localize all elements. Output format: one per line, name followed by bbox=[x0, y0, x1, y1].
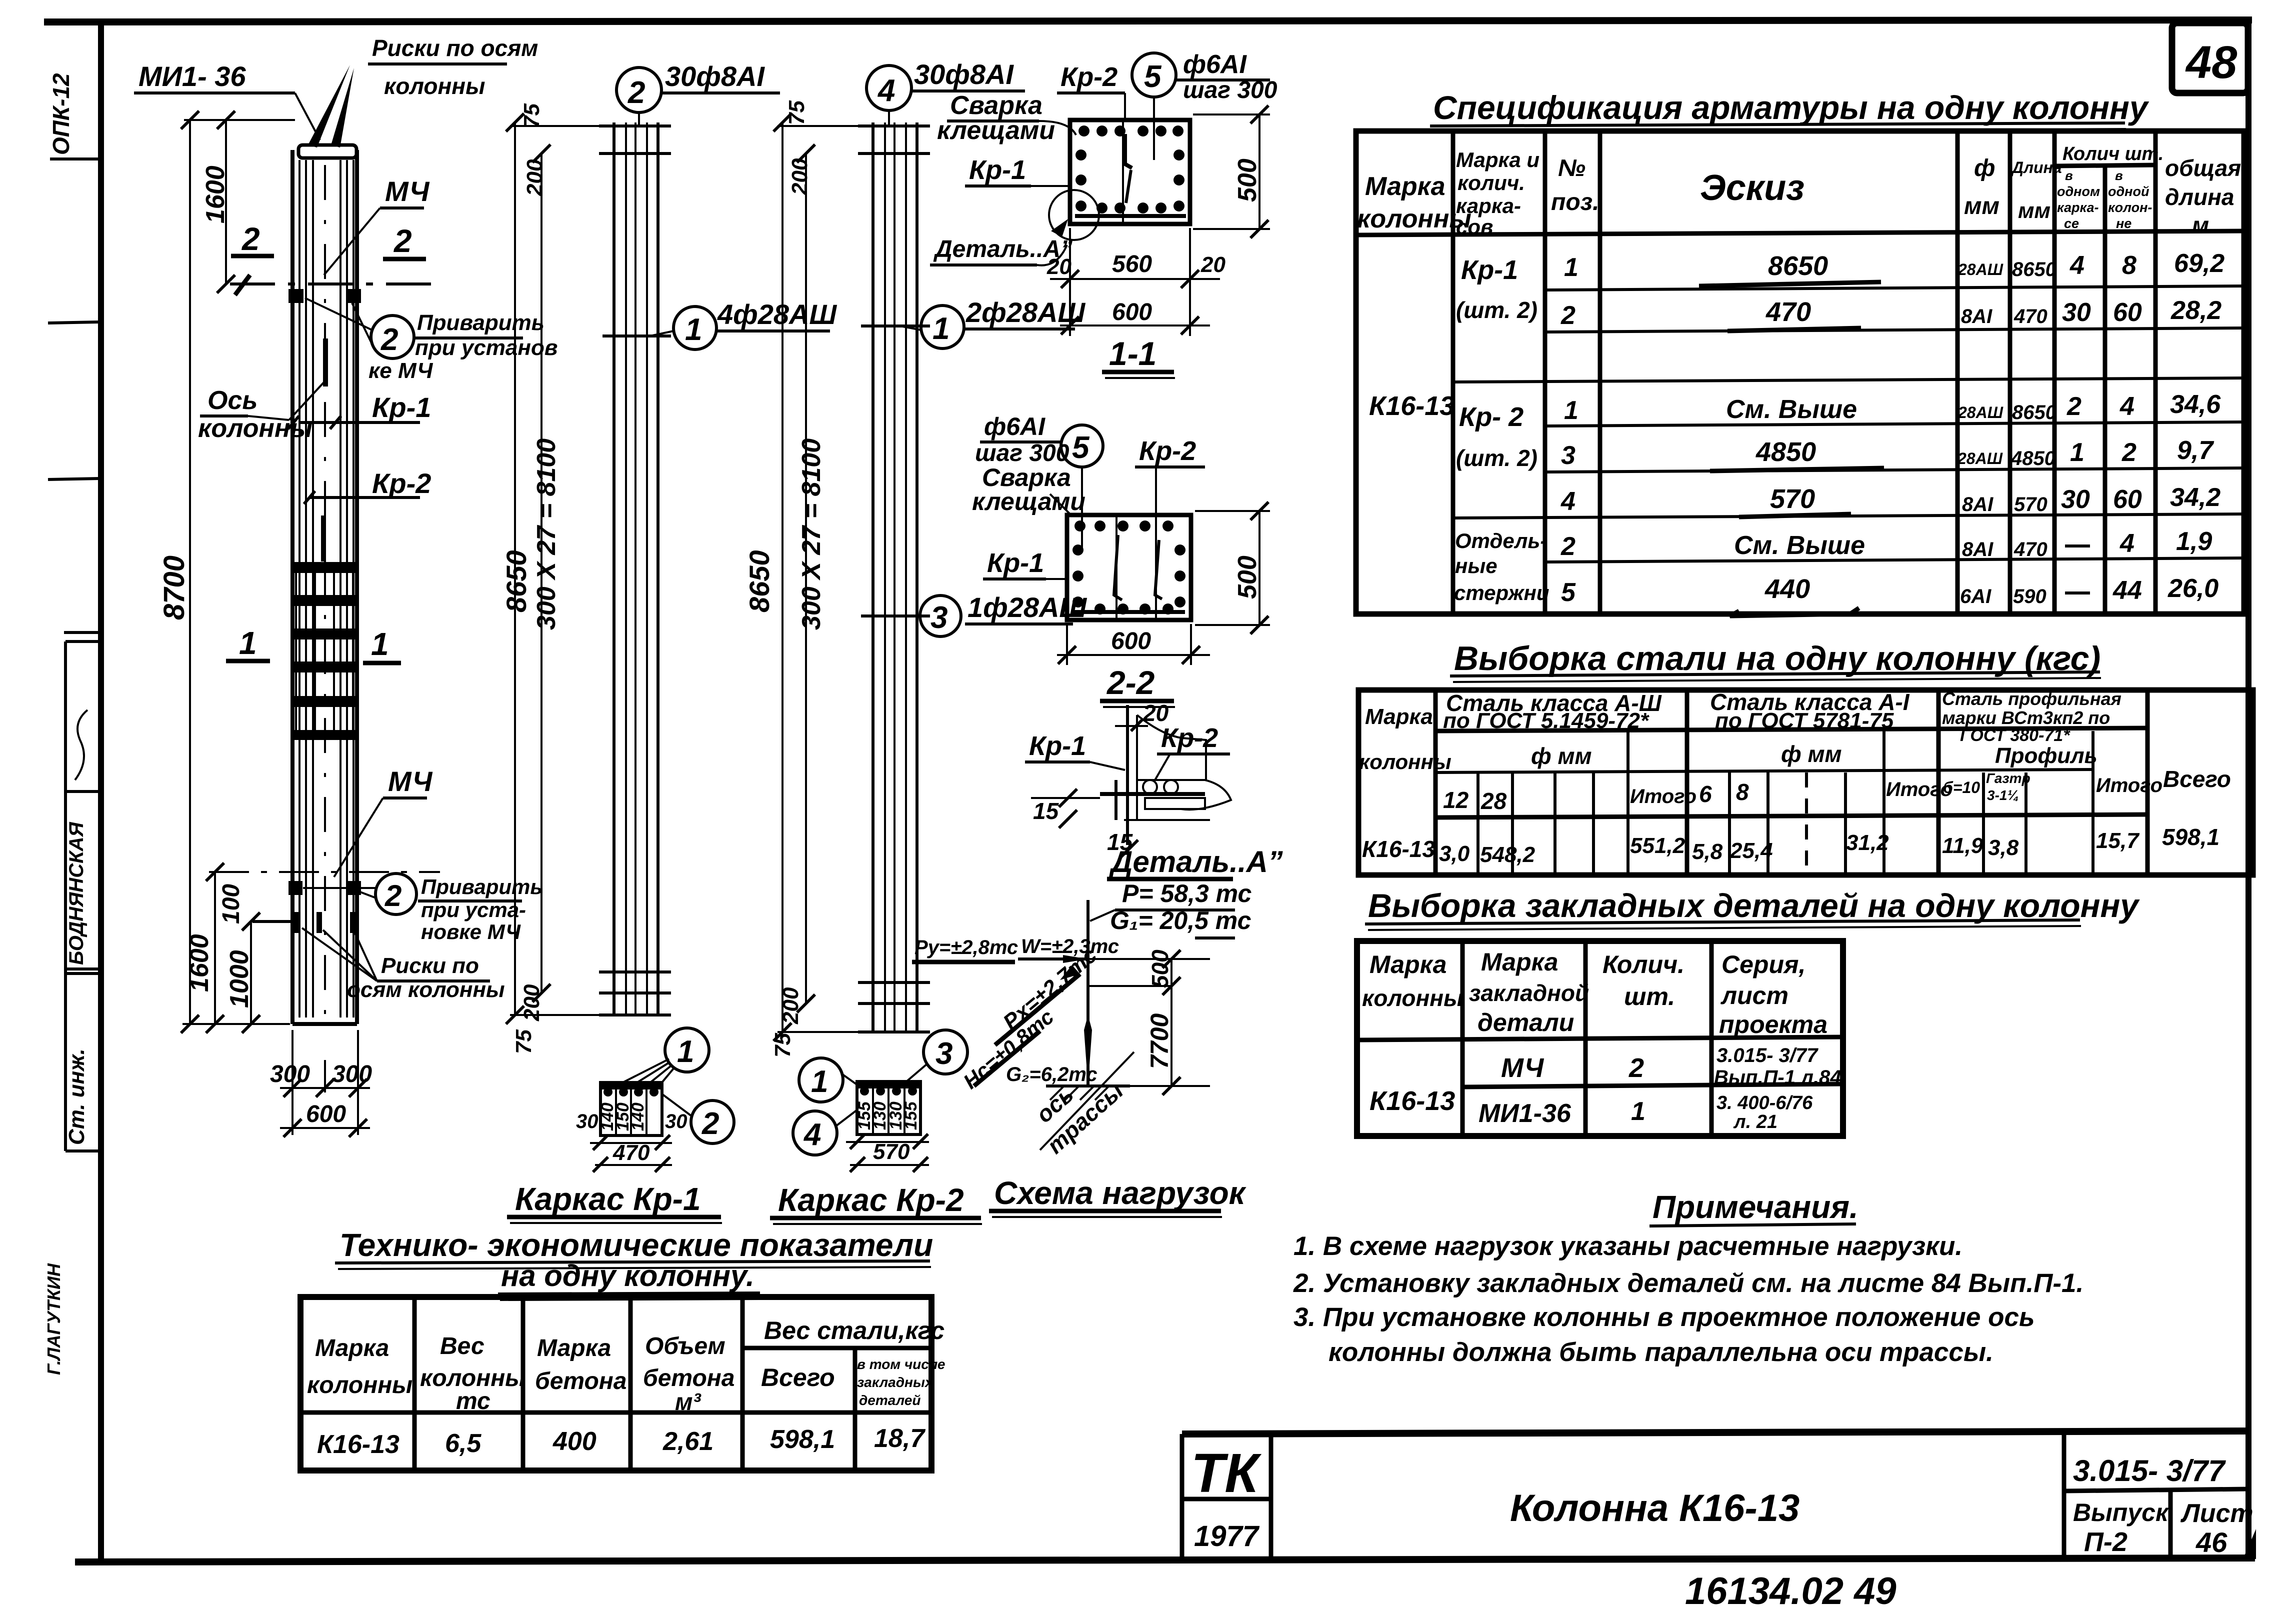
svg-text:мм: мм bbox=[2018, 198, 2050, 223]
section 2-2 dims bbox=[1057, 502, 1270, 707]
svg-text:лист: лист bbox=[1720, 981, 1788, 1009]
cage Kr-1 bars bbox=[599, 122, 671, 1015]
spec table rows body bbox=[1560, 249, 2224, 616]
svg-text:Итого: Итого bbox=[1630, 785, 1696, 807]
svg-text:500: 500 bbox=[1147, 949, 1173, 988]
svg-text:2-2: 2-2 bbox=[1106, 664, 1155, 701]
section cut labels 1-1 bbox=[226, 625, 401, 663]
cage Kr-2 callout 4 top bbox=[866, 58, 1025, 125]
svg-text:300 X 27 = 8100: 300 X 27 = 8100 bbox=[797, 438, 826, 630]
svg-text:30: 30 bbox=[665, 1110, 687, 1132]
svg-text:25,4: 25,4 bbox=[1729, 838, 1773, 863]
TITLE steel table caption bbox=[1450, 639, 2101, 682]
svg-text:7700: 7700 bbox=[1145, 1013, 1173, 1069]
svg-text:Марка: Марка bbox=[1365, 172, 1445, 201]
svg-text:ГОСТ 380-71*: ГОСТ 380-71* bbox=[1960, 726, 2070, 745]
svg-text:8: 8 bbox=[2122, 251, 2136, 280]
dim 1600 top bbox=[201, 111, 235, 293]
svg-text:2,61: 2,61 bbox=[662, 1427, 713, 1456]
svg-text:МЧ: МЧ bbox=[1501, 1053, 1544, 1083]
svg-text:600: 600 bbox=[306, 1101, 346, 1127]
left margin tick 2 bbox=[48, 478, 99, 479]
svg-text:Кр-1: Кр-1 bbox=[372, 391, 431, 423]
cage Kr-2 callout 3 bbox=[900, 591, 1087, 636]
svg-text:Спецификация арматуры на одн: Спецификация арматуры на одну колонну bbox=[1433, 89, 2149, 126]
svg-text:G₁= 20,5 тс: G₁= 20,5 тс bbox=[1110, 906, 1251, 934]
svg-text:4850: 4850 bbox=[1755, 437, 1816, 467]
svg-text:Отдель-: Отдель- bbox=[1455, 529, 1547, 552]
label Karkas Kr-2 bbox=[770, 1182, 982, 1224]
embeds table grid bbox=[1357, 941, 1843, 1136]
svg-text:598,1: 598,1 bbox=[2162, 824, 2219, 850]
svg-text:Py=±2,8тс: Py=±2,8тс bbox=[914, 936, 1018, 958]
svg-text:2: 2 bbox=[380, 322, 398, 357]
svg-text:34,2: 34,2 bbox=[2170, 483, 2220, 512]
svg-text:Кр-2: Кр-2 bbox=[1060, 62, 1117, 92]
svg-text:сов: сов bbox=[1456, 215, 1493, 238]
svg-text:Серия,: Серия, bbox=[1721, 950, 1805, 978]
cage Kr-2 bars bbox=[858, 122, 930, 1032]
svg-text:МИ1- 36: МИ1- 36 bbox=[138, 60, 246, 92]
svg-text:30ф8АI: 30ф8АI bbox=[914, 58, 1014, 90]
page number box 48 bbox=[2172, 23, 2248, 93]
svg-text:W=±2,3тс: W=±2,3тс bbox=[1021, 935, 1119, 957]
svg-text:1600: 1600 bbox=[185, 934, 214, 992]
svg-text:Кр-2: Кр-2 bbox=[1161, 723, 1218, 753]
detail A circle on 1-1 bbox=[930, 190, 1099, 265]
svg-text:на одну колонну.: на одну колонну. bbox=[501, 1259, 754, 1292]
svg-text:2. Установку закладных дета: 2. Установку закладных деталей см. на ли… bbox=[1293, 1268, 2083, 1298]
svg-text:3: 3 bbox=[930, 600, 947, 635]
spec table grid bbox=[1356, 131, 2244, 614]
svg-text:Объем: Объем bbox=[645, 1333, 725, 1359]
svg-text:ф мм: ф мм bbox=[1781, 741, 1842, 767]
svg-text:Всего: Всего bbox=[2163, 766, 2231, 792]
svg-text:Газтр: Газтр bbox=[1986, 770, 2030, 786]
svg-text:Деталь..А”: Деталь..А” bbox=[1108, 845, 1283, 878]
embeds table text bbox=[1362, 948, 1841, 1132]
svg-text:Ось: Ось bbox=[207, 386, 257, 415]
svg-text:600: 600 bbox=[1112, 299, 1152, 325]
svg-text:ные: ные bbox=[1455, 554, 1497, 577]
cage Kr-2 bottom section bbox=[846, 1081, 929, 1172]
svg-text:ф6АI: ф6АI bbox=[984, 412, 1045, 440]
svg-text:колонны: колонны bbox=[1359, 750, 1451, 773]
left stamp boxes bbox=[43, 632, 102, 1375]
left margin tick 1 bbox=[48, 322, 99, 323]
svg-text:ке МЧ: ке МЧ bbox=[368, 358, 433, 383]
svg-text:Марка: Марка bbox=[537, 1335, 611, 1361]
svg-text:200: 200 bbox=[778, 987, 803, 1024]
dims bottom 300 300 600 bbox=[270, 1030, 372, 1137]
svg-text:28АШ: 28АШ bbox=[1957, 449, 2003, 467]
svg-text:6: 6 bbox=[1699, 781, 1712, 807]
svg-text:2: 2 bbox=[241, 221, 260, 257]
label riski bottom bbox=[302, 928, 505, 1002]
svg-text:Длина: Длина bbox=[2010, 158, 2062, 176]
cage Kr-1 bottom callouts bbox=[608, 1028, 734, 1143]
svg-text:3,0: 3,0 bbox=[1439, 841, 1470, 866]
svg-text:Вып.П-1 л.84: Вып.П-1 л.84 bbox=[1714, 1066, 1841, 1088]
svg-text:1: 1 bbox=[932, 311, 949, 346]
svg-text:1000: 1000 bbox=[225, 950, 254, 1008]
svg-text:ТК: ТК bbox=[1191, 1442, 1261, 1504]
svg-text:Кр-1: Кр-1 bbox=[987, 548, 1044, 578]
svg-text:570: 570 bbox=[1770, 484, 1815, 514]
svg-text:2: 2 bbox=[393, 223, 412, 259]
section 2-2 bbox=[1067, 465, 1191, 620]
svg-text:Схема нагрузок: Схема нагрузок bbox=[994, 1175, 1247, 1211]
svg-text:551,2: 551,2 bbox=[1630, 833, 1685, 858]
section 1-1 bbox=[1070, 120, 1190, 224]
svg-text:Марка: Марка bbox=[315, 1335, 389, 1361]
svg-text:шаг 300: шаг 300 bbox=[975, 440, 1069, 466]
svg-text:л. 21: л. 21 bbox=[1733, 1111, 1777, 1132]
svg-text:300: 300 bbox=[332, 1061, 372, 1087]
svg-text:598,1: 598,1 bbox=[770, 1425, 835, 1454]
svg-text:60: 60 bbox=[2113, 298, 2142, 327]
svg-text:4: 4 bbox=[2119, 392, 2134, 421]
load scheme ground bbox=[1031, 1052, 1134, 1158]
svg-text:470: 470 bbox=[1765, 297, 1811, 327]
svg-text:1600: 1600 bbox=[201, 165, 230, 223]
svg-text:б=10: б=10 bbox=[1943, 778, 1980, 796]
svg-text:бетона: бетона bbox=[643, 1365, 734, 1391]
svg-text:бетона: бетона bbox=[535, 1368, 626, 1394]
svg-text:Г.ЛАГУТКИН: Г.ЛАГУТКИН bbox=[43, 1263, 64, 1375]
svg-text:1977: 1977 bbox=[1194, 1520, 1260, 1552]
svg-text:проекта: проекта bbox=[1719, 1010, 1827, 1038]
svg-text:1: 1 bbox=[1564, 396, 1578, 425]
svg-text:2: 2 bbox=[1628, 1053, 1644, 1083]
svg-text:не: не bbox=[2116, 216, 2131, 231]
svg-text:548,2: 548,2 bbox=[1480, 842, 1535, 867]
callout 2 weld bottom bbox=[303, 873, 542, 943]
svg-text:60: 60 bbox=[2113, 485, 2142, 514]
svg-text:Вес: Вес bbox=[440, 1333, 484, 1359]
svg-text:11,9: 11,9 bbox=[1942, 833, 1983, 858]
svg-text:Колич шт.: Колич шт. bbox=[2062, 143, 2163, 164]
svg-text:одной: одной bbox=[2108, 184, 2149, 199]
svg-text:ОПК-12: ОПК-12 bbox=[48, 73, 74, 155]
svg-text:колонны: колонны bbox=[307, 1372, 412, 1398]
svg-text:(шт. 2): (шт. 2) bbox=[1456, 445, 1537, 471]
svg-text:200: 200 bbox=[787, 158, 812, 195]
svg-text:31,2: 31,2 bbox=[1846, 830, 1889, 855]
svg-text:5: 5 bbox=[1072, 430, 1090, 465]
svg-text:6АI: 6АI bbox=[1960, 585, 1991, 607]
svg-text:3.015- 3/77: 3.015- 3/77 bbox=[1716, 1044, 1818, 1066]
svg-text:3: 3 bbox=[1561, 441, 1575, 470]
svg-text:при установ: при установ bbox=[415, 335, 557, 360]
svg-text:шт.: шт. bbox=[1624, 982, 1675, 1010]
svg-text:75: 75 bbox=[770, 1033, 795, 1057]
svg-text:се: се bbox=[2064, 216, 2079, 231]
svg-text:шаг 300: шаг 300 bbox=[1183, 77, 1277, 103]
spec table col1-2 body bbox=[1369, 255, 1549, 604]
svg-text:3. 400-6/76: 3. 400-6/76 bbox=[1716, 1092, 1813, 1113]
svg-text:2ф28АШ: 2ф28АШ bbox=[965, 296, 1085, 328]
svg-text:Марка и: Марка и bbox=[1456, 148, 1539, 171]
label M4 bottom bbox=[334, 765, 433, 877]
svg-text:8650: 8650 bbox=[500, 550, 532, 612]
svg-text:75: 75 bbox=[511, 1029, 536, 1054]
svg-text:2: 2 bbox=[2121, 438, 2136, 467]
svg-text:28: 28 bbox=[1480, 788, 1507, 814]
svg-text:Марка: Марка bbox=[1365, 704, 1433, 729]
svg-text:См. Выше: См. Выше bbox=[1726, 395, 1857, 424]
svg-text:30: 30 bbox=[2061, 485, 2090, 514]
svg-text:8650: 8650 bbox=[743, 550, 775, 612]
cage Kr-2 callout 1 bbox=[900, 296, 1085, 348]
svg-text:1. В схеме нагрузок указаны: 1. В схеме нагрузок указаны расчетные на… bbox=[1293, 1231, 1962, 1261]
svg-text:мм: мм bbox=[1964, 193, 1999, 219]
svg-text:2: 2 bbox=[1560, 532, 1575, 561]
svg-text:П-2: П-2 bbox=[2084, 1527, 2127, 1557]
svg-text:1-1: 1-1 bbox=[1109, 335, 1156, 372]
svg-text:5: 5 bbox=[1561, 578, 1576, 607]
svg-text:Выпуск: Выпуск bbox=[2073, 1498, 2169, 1526]
svg-text:См. Выше: См. Выше bbox=[1734, 531, 1865, 560]
column elevation body bbox=[292, 150, 357, 1024]
svg-text:БОДНЯНСКАЯ: БОДНЯНСКАЯ bbox=[65, 821, 87, 965]
svg-text:марки ВСт3кп2 по: марки ВСт3кп2 по bbox=[1942, 707, 2110, 728]
svg-text:поз.: поз. bbox=[1551, 189, 1599, 215]
svg-text:МЧ: МЧ bbox=[388, 765, 433, 797]
MCh embed squares bottom bbox=[288, 881, 361, 895]
svg-text:440: 440 bbox=[1764, 574, 1810, 604]
svg-text:одном: одном bbox=[2057, 184, 2100, 199]
load scheme diagonal arrows bbox=[959, 943, 1101, 1093]
svg-text:Деталь..А”: Деталь..А” bbox=[933, 236, 1072, 262]
svg-text:9,7: 9,7 bbox=[2177, 436, 2214, 465]
svg-text:4: 4 bbox=[1560, 487, 1575, 516]
svg-text:3. При установке колонны в: 3. При установке колонны в проектное пол… bbox=[1293, 1302, 2034, 1332]
svg-text:К16-13: К16-13 bbox=[1369, 1086, 1455, 1116]
svg-text:Примечания.: Примечания. bbox=[1652, 1189, 1858, 1225]
svg-text:колич.: колич. bbox=[1457, 171, 1525, 194]
svg-text:4850: 4850 bbox=[2010, 447, 2055, 469]
svg-text:200: 200 bbox=[519, 984, 544, 1021]
svg-text:(шт. 2): (шт. 2) bbox=[1456, 297, 1537, 323]
bottom axis mark ticks bbox=[252, 912, 355, 933]
svg-text:600: 600 bbox=[1111, 628, 1151, 654]
svg-text:колонны: колонны bbox=[1357, 204, 1471, 233]
svg-text:300 X 27 = 8100: 300 X 27 = 8100 bbox=[532, 438, 561, 630]
svg-text:590: 590 bbox=[2013, 585, 2046, 607]
section 1-1 dims bbox=[1046, 105, 1270, 378]
svg-text:деталей: деталей bbox=[859, 1392, 920, 1408]
svg-text:Приварить: Приварить bbox=[421, 875, 542, 898]
svg-text:по ГОСТ 5.1459-72*: по ГОСТ 5.1459-72* bbox=[1443, 708, 1649, 733]
svg-text:ф мм: ф мм bbox=[1531, 743, 1592, 769]
detail A drawing bbox=[1025, 700, 1283, 879]
svg-text:ф: ф bbox=[1974, 155, 1995, 181]
svg-text:30: 30 bbox=[576, 1110, 598, 1132]
svg-text:140: 140 bbox=[628, 1102, 647, 1131]
svg-text:Кр-2: Кр-2 bbox=[372, 467, 431, 499]
svg-text:30: 30 bbox=[2062, 298, 2091, 327]
svg-text:Всего: Всего bbox=[761, 1363, 835, 1391]
svg-text:3.015- 3/77: 3.015- 3/77 bbox=[2073, 1454, 2226, 1487]
svg-text:Лист: Лист bbox=[2180, 1499, 2253, 1528]
svg-text:69,2: 69,2 bbox=[2174, 249, 2224, 278]
svg-text:100: 100 bbox=[218, 884, 244, 924]
svg-text:28АШ: 28АШ bbox=[1957, 403, 2003, 421]
section cut line 2-2 bbox=[230, 221, 440, 295]
svg-text:Приварить: Приварить bbox=[417, 310, 544, 335]
svg-text:46: 46 bbox=[2195, 1526, 2227, 1558]
svg-text:20: 20 bbox=[1200, 252, 1225, 277]
svg-text:6,5: 6,5 bbox=[445, 1429, 481, 1458]
label riski top bbox=[368, 35, 538, 99]
svg-text:ф6АI: ф6АI bbox=[1183, 50, 1247, 79]
svg-text:4: 4 bbox=[803, 1117, 821, 1152]
label os kolonny bbox=[198, 380, 326, 443]
svg-text:осям колонны: осям колонны bbox=[347, 977, 505, 1002]
svg-text:12: 12 bbox=[1443, 787, 1469, 813]
section 1-1 leader labels bbox=[937, 50, 1277, 186]
svg-text:1: 1 bbox=[2070, 438, 2084, 467]
tep table grid bbox=[300, 1297, 931, 1470]
svg-text:Кр- 2: Кр- 2 bbox=[1459, 402, 1523, 432]
svg-text:155: 155 bbox=[901, 1101, 920, 1130]
cage Kr-2 bottom callouts bbox=[793, 1030, 967, 1155]
svg-text:8АI: 8АI bbox=[1962, 538, 1993, 560]
svg-text:карка-: карка- bbox=[1456, 194, 1521, 217]
svg-text:общая: общая bbox=[2165, 155, 2241, 181]
label MI1-36 bbox=[134, 60, 320, 140]
svg-text:200: 200 bbox=[522, 159, 547, 196]
svg-text:при уста-: при уста- bbox=[421, 898, 526, 921]
svg-text:клещами: клещами bbox=[937, 116, 1055, 145]
svg-text:2: 2 bbox=[627, 75, 645, 110]
svg-text:Колич.: Колич. bbox=[1602, 950, 1684, 978]
svg-text:2: 2 bbox=[384, 879, 401, 912]
svg-text:28,2: 28,2 bbox=[2170, 296, 2221, 325]
section 2-2 leader labels bbox=[972, 412, 1205, 579]
svg-text:МЧ: МЧ bbox=[385, 175, 430, 207]
svg-text:1: 1 bbox=[1631, 1097, 1645, 1126]
svg-text:8АI: 8АI bbox=[1962, 493, 1993, 515]
svg-text:колонны: колонны bbox=[1362, 985, 1463, 1011]
svg-text:Технико- экономические пок: Технико- экономические показатели bbox=[339, 1227, 933, 1263]
svg-text:по ГОСТ 5781-75: по ГОСТ 5781-75 bbox=[1715, 708, 1894, 733]
svg-text:Марка: Марка bbox=[1481, 948, 1558, 976]
spec table header text bbox=[1357, 143, 2241, 238]
svg-text:Вес стали,кгс: Вес стали,кгс bbox=[764, 1316, 944, 1344]
svg-text:470: 470 bbox=[612, 1140, 650, 1165]
svg-text:тс: тс bbox=[456, 1388, 490, 1414]
svg-text:2: 2 bbox=[1560, 301, 1575, 330]
svg-text:1: 1 bbox=[811, 1064, 828, 1099]
svg-text:колонны должна быть паралл: колонны должна быть параллельна оси трас… bbox=[1328, 1337, 1993, 1367]
svg-text:8: 8 bbox=[1736, 779, 1749, 805]
svg-text:длина: длина bbox=[2165, 184, 2234, 210]
svg-text:2: 2 bbox=[2066, 392, 2081, 421]
svg-text:м: м bbox=[2192, 212, 2209, 238]
svg-text:5,8: 5,8 bbox=[1692, 839, 1723, 864]
svg-text:28АШ: 28АШ bbox=[1957, 260, 2003, 278]
column inner cage dashes bbox=[321, 338, 328, 561]
svg-text:Кр-1: Кр-1 bbox=[1461, 255, 1518, 285]
svg-text:8650: 8650 bbox=[2012, 258, 2056, 280]
cage Kr-1 callout 2 top bbox=[616, 60, 780, 125]
svg-text:400: 400 bbox=[552, 1427, 596, 1456]
svg-text:Марка: Марка bbox=[1369, 950, 1446, 978]
svg-text:Каркас Кр-1: Каркас Кр-1 bbox=[515, 1181, 701, 1217]
label Kr-1 elev bbox=[288, 391, 431, 429]
left margin stamp OPK-12 bbox=[48, 73, 99, 159]
svg-text:МИ1-36: МИ1-36 bbox=[1478, 1099, 1571, 1128]
cage Kr-1 dims 8650 / 300x27 bbox=[500, 103, 620, 1054]
svg-text:2: 2 bbox=[701, 1106, 719, 1141]
svg-text:Сталь профильная: Сталь профильная bbox=[1942, 688, 2121, 709]
svg-text:P= 58,3 тс: P= 58,3 тс bbox=[1122, 879, 1251, 907]
svg-text:в том числе: в том числе bbox=[857, 1356, 945, 1372]
svg-text:1,9: 1,9 bbox=[2176, 527, 2212, 556]
svg-text:Каркас Кр-2: Каркас Кр-2 bbox=[778, 1182, 964, 1218]
svg-text:К16-13: К16-13 bbox=[1369, 391, 1454, 421]
svg-text:75: 75 bbox=[784, 100, 809, 125]
svg-text:№: № bbox=[1558, 155, 1585, 181]
MCh embed squares top bbox=[288, 289, 361, 303]
column stirrup bands bbox=[291, 562, 358, 740]
svg-text:44: 44 bbox=[2112, 576, 2142, 605]
svg-text:30ф8АI: 30ф8АI bbox=[665, 60, 765, 92]
column top cap MI1-36 loop bbox=[298, 65, 356, 158]
svg-text:детали: детали bbox=[1477, 1008, 1574, 1036]
svg-text:8АI: 8АI bbox=[1961, 305, 1992, 327]
notes bbox=[1293, 1189, 2083, 1367]
label M4 top bbox=[324, 175, 430, 275]
cage Kr-2 dims 8650 / 300x27 bbox=[743, 100, 879, 1057]
svg-text:560: 560 bbox=[1112, 251, 1152, 277]
svg-text:18,7: 18,7 bbox=[874, 1424, 925, 1453]
svg-text:в: в bbox=[2065, 168, 2073, 183]
svg-text:8650: 8650 bbox=[2012, 401, 2056, 423]
svg-text:1: 1 bbox=[685, 312, 702, 347]
svg-text:470: 470 bbox=[2013, 538, 2047, 560]
svg-text:570: 570 bbox=[873, 1139, 910, 1164]
svg-text:Ст. инж.: Ст. инж. bbox=[64, 1048, 89, 1145]
svg-text:26,0: 26,0 bbox=[2167, 574, 2218, 603]
svg-text:Кр-1: Кр-1 bbox=[1029, 731, 1086, 761]
svg-text:3,8: 3,8 bbox=[1988, 835, 2019, 860]
svg-text:в: в bbox=[2115, 168, 2123, 183]
svg-text:карка-: карка- bbox=[2057, 200, 2099, 215]
svg-text:К16-13: К16-13 bbox=[1362, 836, 1435, 862]
svg-text:8650: 8650 bbox=[1768, 251, 1828, 281]
TITLE embeds table caption bbox=[1365, 887, 2140, 930]
svg-text:м³: м³ bbox=[675, 1389, 702, 1415]
svg-text:1: 1 bbox=[371, 626, 389, 662]
tep table text bbox=[307, 1316, 945, 1459]
svg-text:75: 75 bbox=[519, 103, 544, 128]
svg-text:48: 48 bbox=[2185, 37, 2237, 88]
svg-text:колонны: колонны bbox=[384, 73, 485, 99]
dim 8700 left bbox=[158, 111, 295, 1033]
svg-text:Риски по: Риски по bbox=[381, 953, 479, 978]
svg-text:закладных: закладных bbox=[857, 1374, 933, 1390]
svg-text:Колонна К16-13: Колонна К16-13 bbox=[1510, 1487, 1799, 1529]
svg-text:1: 1 bbox=[1564, 253, 1578, 282]
steel table grid bbox=[1358, 690, 2253, 875]
svg-text:колон-: колон- bbox=[2108, 200, 2152, 215]
callout 2 weld top bbox=[305, 298, 557, 383]
svg-text:34,6: 34,6 bbox=[2170, 390, 2221, 419]
svg-text:Риски по осям: Риски по осям bbox=[372, 35, 538, 61]
